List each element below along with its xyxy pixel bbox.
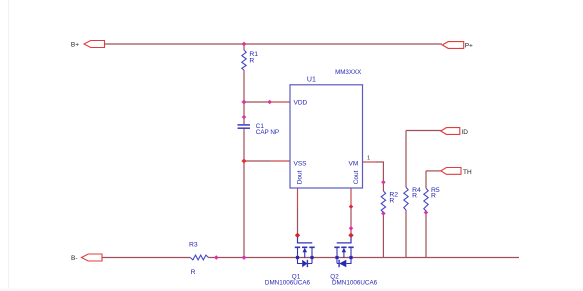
- svg-text:U1: U1: [307, 77, 316, 84]
- svg-text:1: 1: [367, 156, 370, 162]
- svg-text:R3: R3: [189, 242, 198, 249]
- svg-text:DMN1006UCA6: DMN1006UCA6: [265, 279, 311, 286]
- svg-text:B+: B+: [71, 42, 79, 49]
- svg-text:P+: P+: [465, 43, 473, 50]
- svg-text:VM: VM: [349, 161, 359, 168]
- svg-text:CAP NP: CAP NP: [256, 129, 279, 136]
- svg-text:Cout: Cout: [353, 170, 360, 184]
- svg-text:R: R: [412, 193, 417, 200]
- svg-text:TH: TH: [463, 169, 472, 176]
- svg-text:VDD: VDD: [294, 100, 308, 107]
- svg-text:VSS: VSS: [294, 161, 308, 168]
- svg-text:Dout: Dout: [296, 170, 303, 184]
- svg-text:DMN1006UCA6: DMN1006UCA6: [332, 279, 378, 286]
- svg-text:MM3XXX: MM3XXX: [335, 69, 361, 76]
- svg-text:R: R: [389, 197, 394, 204]
- svg-text:ID: ID: [461, 129, 468, 136]
- svg-text:R: R: [431, 193, 436, 200]
- svg-text:R: R: [191, 269, 196, 276]
- svg-text:R: R: [249, 57, 254, 64]
- svg-text:B-: B-: [71, 255, 78, 262]
